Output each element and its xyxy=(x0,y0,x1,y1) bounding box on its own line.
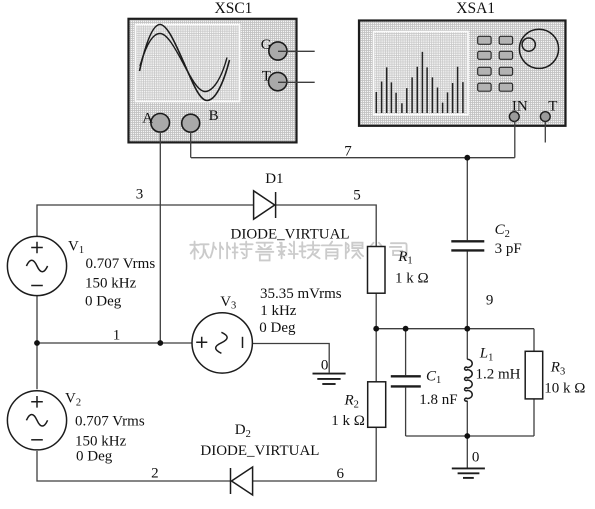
wire top rail of tank xyxy=(376,328,534,330)
spectrum analyzer XSA1 body xyxy=(359,21,566,126)
diode D2 xyxy=(232,467,253,495)
svg-text:XSC1: XSC1 xyxy=(215,0,253,17)
resistor R1 xyxy=(368,247,386,294)
junction rail C1 xyxy=(403,326,409,332)
wire R2 top xyxy=(375,329,377,382)
wire scope T stub xyxy=(278,81,315,83)
XSA1 terminal T xyxy=(540,112,550,122)
XSA1 buttons xyxy=(478,36,513,91)
svg-text:9: 9 xyxy=(486,293,494,309)
svg-text:0 Deg: 0 Deg xyxy=(259,320,296,336)
ground 0 (V3) xyxy=(313,374,346,384)
wire R3 top branch xyxy=(533,329,535,352)
svg-text:3: 3 xyxy=(136,187,144,203)
svg-text:0.707 Vrms: 0.707 Vrms xyxy=(86,256,156,272)
wire node 5: D1 to R1 xyxy=(275,205,376,247)
capacitor C2 xyxy=(451,241,484,250)
wire scope G stub xyxy=(278,50,315,52)
svg-text:0: 0 xyxy=(472,450,480,466)
XSC1 waveform B xyxy=(140,34,227,92)
svg-text:0: 0 xyxy=(321,358,329,374)
svg-text:0 Deg: 0 Deg xyxy=(76,449,113,465)
junction node1 left xyxy=(34,340,40,346)
svg-text:150 kHz: 150 kHz xyxy=(75,433,127,449)
wire V3 to ground 0 xyxy=(252,344,329,373)
diode D1 xyxy=(254,191,275,219)
svg-text:1.2 mH: 1.2 mH xyxy=(476,367,521,383)
wire C1 top branch xyxy=(405,329,407,376)
wire R1 bottom xyxy=(375,293,377,329)
oscilloscope XSC1 body xyxy=(129,19,297,143)
wire ground stub xyxy=(466,436,468,468)
wire scope B down xyxy=(190,132,192,158)
resistor R2 xyxy=(368,382,386,428)
svg-text:A: A xyxy=(142,111,153,127)
svg-text:10 k Ω: 10 k Ω xyxy=(544,380,585,396)
wire C2 top branch xyxy=(466,158,468,241)
svg-text:XSA1: XSA1 xyxy=(456,0,495,17)
wire C2 bottom branch to node 9 xyxy=(466,251,468,329)
XSC1 terminal A xyxy=(151,114,170,133)
XSC1 waveform A xyxy=(140,25,230,101)
wire node 2: D2 to V2 xyxy=(37,451,230,481)
junction node1 scopeA xyxy=(157,340,163,346)
wire XSA1 IN down xyxy=(514,121,516,158)
svg-text:2: 2 xyxy=(151,466,159,482)
XSC1 terminal G xyxy=(269,42,287,60)
svg-text:DIODE_VIRTUAL: DIODE_VIRTUAL xyxy=(200,443,319,459)
wire V1 minus to V2 plus xyxy=(36,296,38,389)
ground 0 (tank) xyxy=(452,468,485,478)
svg-text:D1: D1 xyxy=(265,171,283,187)
XSC1 terminal T xyxy=(269,72,287,90)
svg-text:T: T xyxy=(262,68,271,84)
svg-text:6: 6 xyxy=(337,466,345,482)
wire node 6: R2 bottom to D2 xyxy=(253,427,377,481)
svg-text:B: B xyxy=(209,108,219,124)
junction node7 C2 xyxy=(464,155,470,161)
source V1 xyxy=(7,236,66,295)
svg-text:1: 1 xyxy=(113,327,121,343)
watermark 杭州将睿科技有限公司 xyxy=(190,242,406,261)
wire L1 top branch xyxy=(466,329,468,360)
resistor R3 xyxy=(525,351,543,399)
XSA1 terminal IN xyxy=(509,112,519,122)
wire node 3: V1 top to D1 xyxy=(37,205,254,237)
svg-text:5: 5 xyxy=(353,188,361,204)
wire scope A to node 1 xyxy=(159,132,161,343)
source V2 xyxy=(7,391,66,450)
svg-text:1 k Ω: 1 k Ω xyxy=(331,413,365,429)
wire node 7 horizontal xyxy=(191,157,515,159)
wire R3 bottom branch xyxy=(533,399,535,436)
XSA1 knob xyxy=(519,29,558,68)
wire node 1 to V3 xyxy=(37,342,192,344)
inductor L1 xyxy=(465,359,473,401)
svg-text:DIODE_VIRTUAL: DIODE_VIRTUAL xyxy=(231,227,350,243)
svg-text:3 pF: 3 pF xyxy=(495,241,522,257)
svg-text:150 kHz: 150 kHz xyxy=(85,276,137,292)
wire bottom rail of tank xyxy=(406,435,534,437)
svg-text:0.707 Vrms: 0.707 Vrms xyxy=(75,414,145,430)
wire C1 bottom branch xyxy=(405,388,407,436)
svg-text:T: T xyxy=(548,99,557,115)
svg-text:1.8 nF: 1.8 nF xyxy=(419,392,457,408)
XSC1 screen xyxy=(136,25,240,102)
junction rail L1 xyxy=(464,326,470,332)
svg-text:G: G xyxy=(261,37,272,53)
source V3 xyxy=(192,313,252,373)
svg-text:1 kHz: 1 kHz xyxy=(260,303,297,319)
svg-text:IN: IN xyxy=(512,99,528,115)
wire L1 bottom branch xyxy=(466,401,468,436)
svg-text:35.35 mVrms: 35.35 mVrms xyxy=(260,286,342,302)
XSA1 spectrum bars xyxy=(376,52,463,113)
wire XSA1 T stub xyxy=(544,122,546,143)
junction bottom rail ground xyxy=(464,433,470,439)
svg-text:7: 7 xyxy=(344,143,352,159)
XSC1 terminal B xyxy=(182,114,200,132)
capacitor C1 xyxy=(391,376,421,386)
XSA1 screen xyxy=(374,32,469,115)
svg-text:1 k Ω: 1 k Ω xyxy=(395,270,429,286)
junction rail R1R2 xyxy=(373,326,379,332)
svg-text:0 Deg: 0 Deg xyxy=(85,294,122,310)
